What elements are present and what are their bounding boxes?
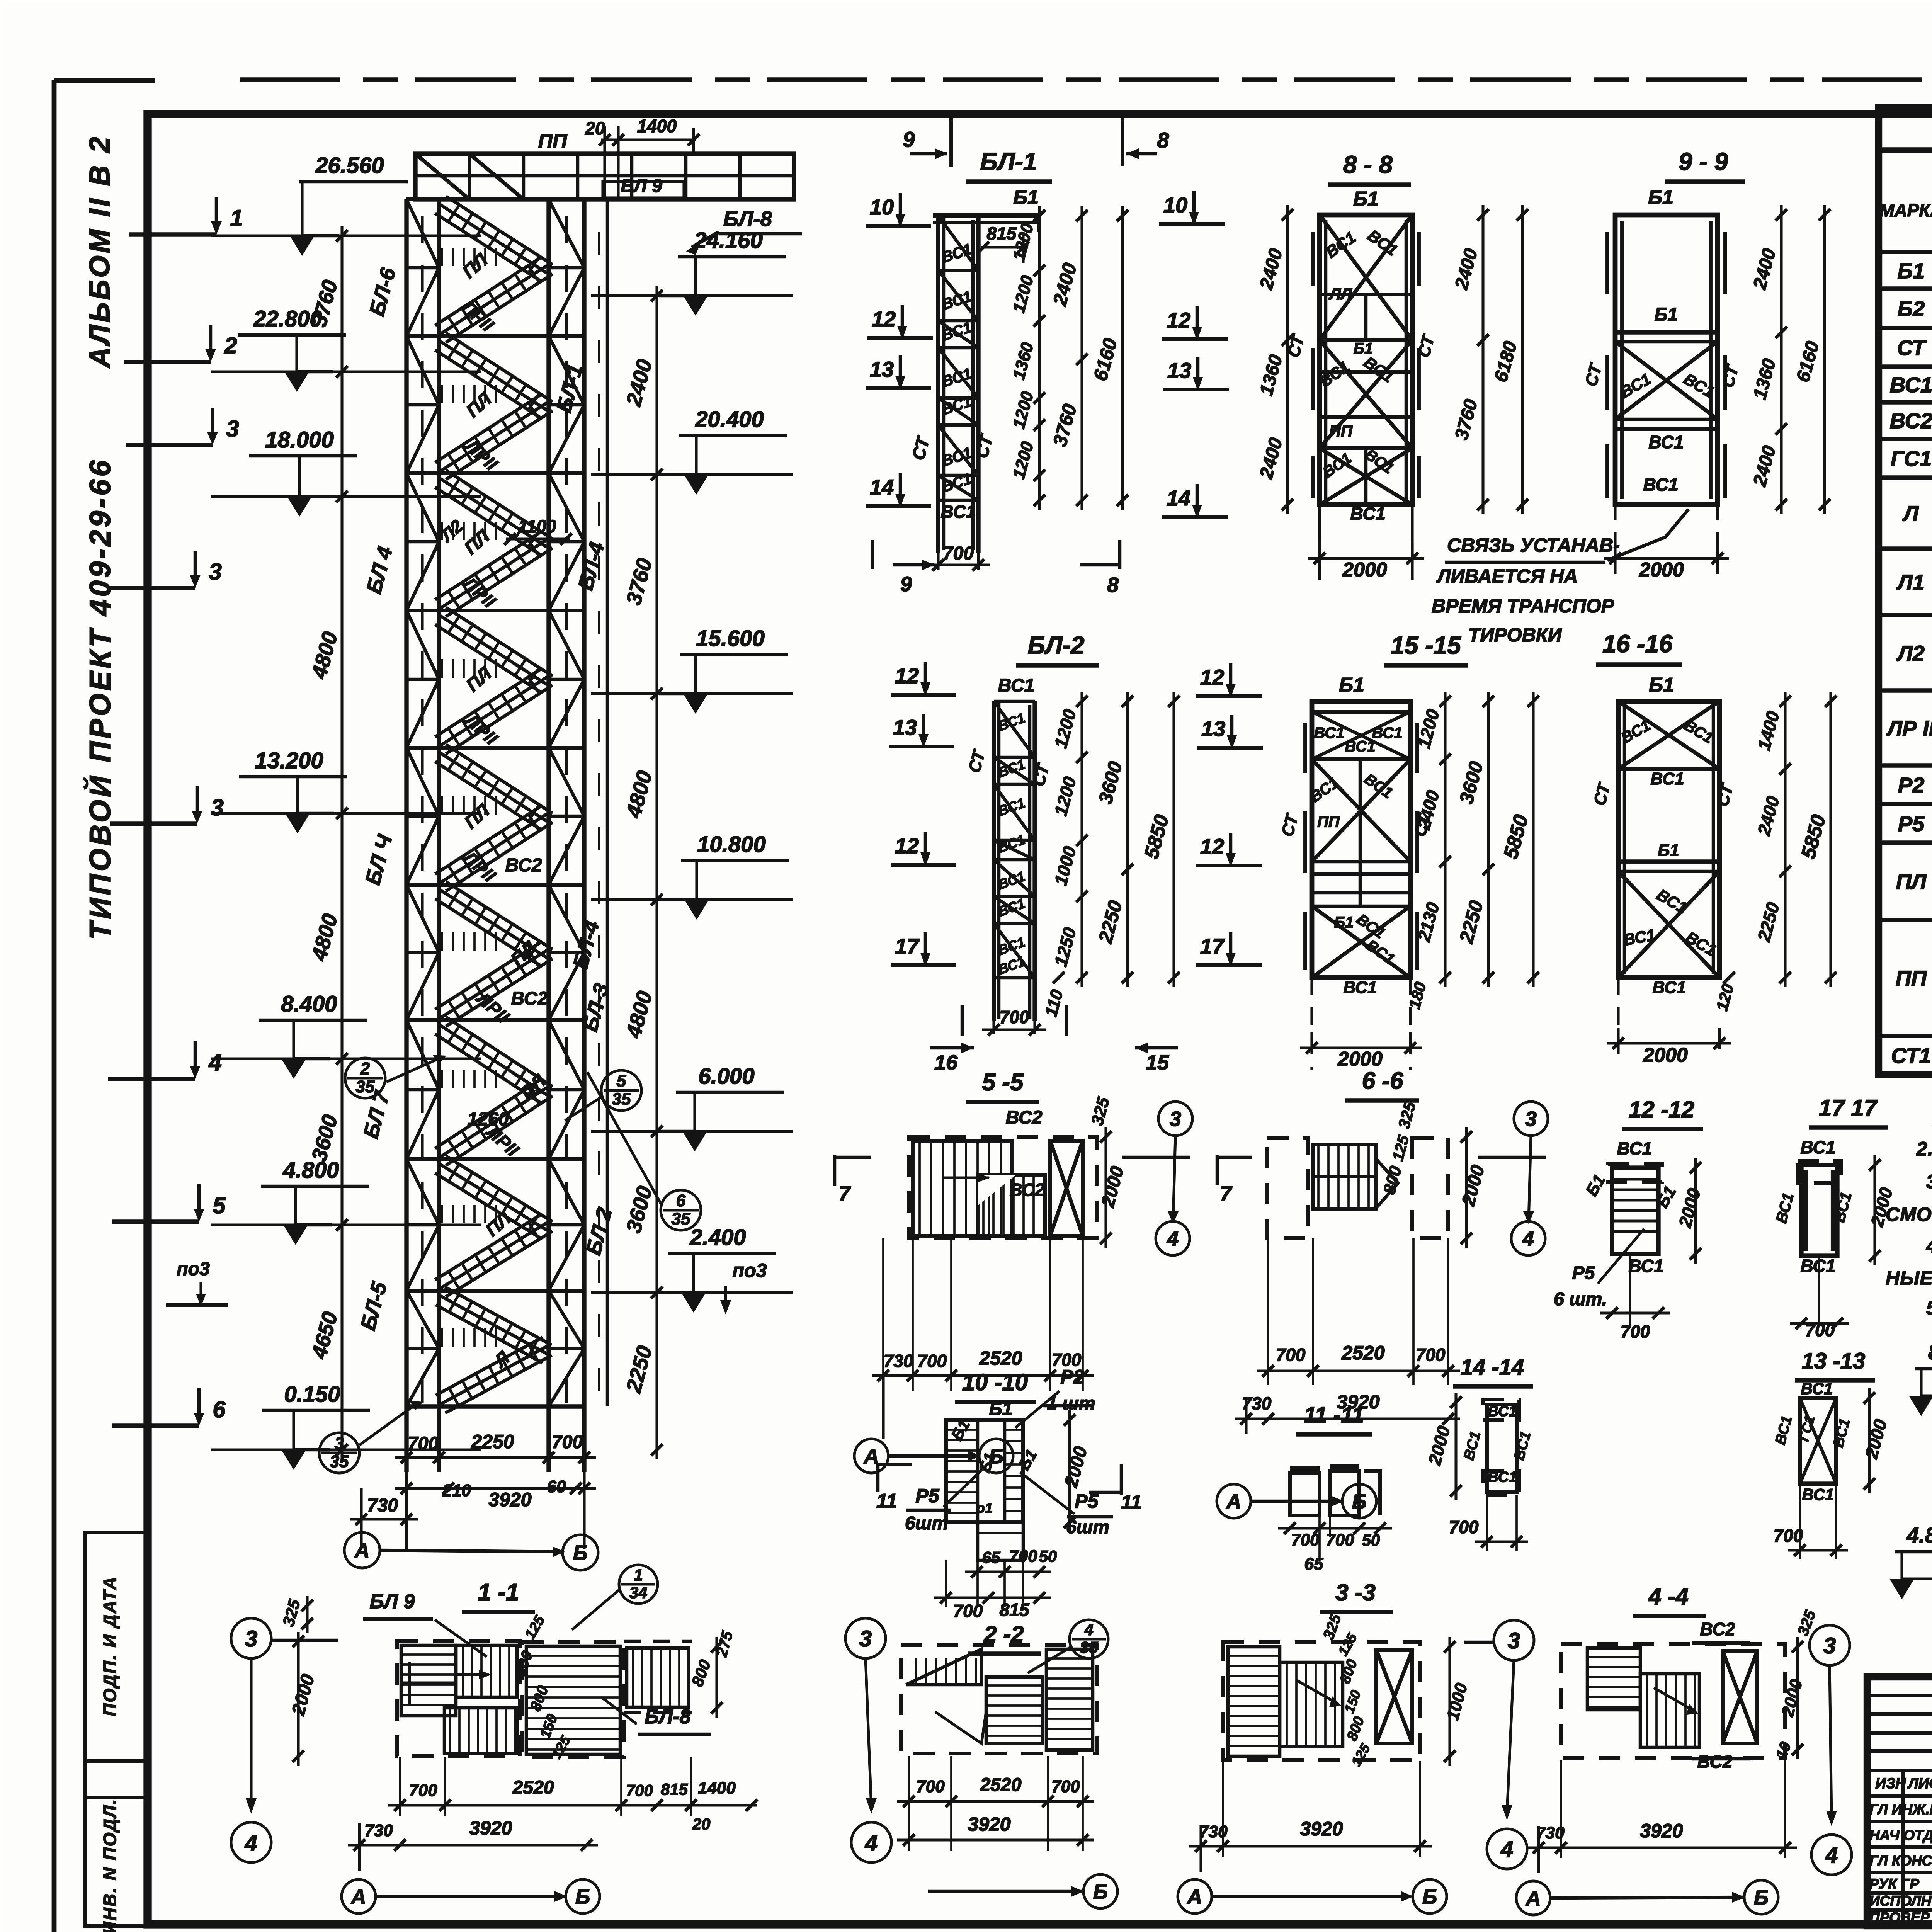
svg-text:Б1: Б1 (1658, 841, 1679, 860)
svg-text:15 -15: 15 -15 (1391, 631, 1461, 659)
svg-text:4: 4 (865, 1830, 878, 1855)
svg-text:700: 700 (1416, 1345, 1446, 1365)
svg-text:12: 12 (1167, 308, 1190, 332)
svg-text:700: 700 (626, 1781, 653, 1799)
svg-text:4: 4 (245, 1830, 257, 1855)
svg-text:15.600: 15.600 (696, 626, 764, 651)
svg-text:3: 3 (1525, 1107, 1537, 1131)
svg-text:20.400: 20.400 (695, 407, 764, 432)
svg-text:35: 35 (356, 1077, 375, 1096)
svg-text:ВС1: ВС1 (1653, 978, 1686, 997)
svg-text:700: 700 (917, 1351, 947, 1371)
svg-text:20: 20 (585, 118, 605, 138)
svg-text:ПП: ПП (1329, 422, 1353, 440)
svg-text:ВС1: ВС1 (1801, 1137, 1836, 1157)
svg-text:700: 700 (1000, 1007, 1029, 1027)
svg-text:35: 35 (1080, 1638, 1098, 1656)
svg-text:8.400: 8.400 (1928, 1340, 1932, 1364)
svg-text:35: 35 (672, 1209, 690, 1228)
svg-text:5. ВСЕ БОЛТЫ М12 КЛАСС 5,8: 5. ВСЕ БОЛТЫ М12 КЛАСС 5,8, КРОМЕ ОГОВОР… (1926, 1297, 1932, 1319)
svg-text:ВС2: ВС2 (505, 855, 542, 876)
svg-text:ЛЛ: ЛЛ (1328, 285, 1352, 303)
svg-text:815: 815 (661, 1780, 688, 1798)
svg-text:17 17: 17 17 (1819, 1095, 1878, 1121)
svg-text:2520: 2520 (980, 1775, 1022, 1795)
svg-text:730: 730 (884, 1351, 913, 1371)
svg-text:ВС2: ВС2 (1890, 408, 1932, 433)
svg-text:по3: по3 (733, 1260, 767, 1281)
svg-text:4: 4 (208, 1049, 221, 1075)
svg-text:ИНВ. N ПОДЛ.: ИНВ. N ПОДЛ. (100, 1798, 120, 1932)
svg-text:3920: 3920 (968, 1813, 1010, 1835)
svg-text:ВС1: ВС1 (1372, 724, 1402, 742)
svg-text:Р5: Р5 (915, 1485, 939, 1507)
svg-text:Л1: Л1 (1896, 570, 1925, 594)
svg-text:СТ1: СТ1 (1891, 1043, 1931, 1068)
svg-text:1 -1: 1 -1 (478, 1579, 519, 1606)
svg-text:13 -13: 13 -13 (1802, 1349, 1865, 1374)
svg-text:РУК ГР: РУК ГР (1869, 1876, 1919, 1892)
svg-text:ЛИСТ: ЛИСТ (1907, 1776, 1932, 1792)
svg-text:ВС2: ВС2 (1697, 1752, 1733, 1772)
svg-text:ЛР II: ЛР II (1886, 716, 1932, 740)
svg-text:16: 16 (934, 1051, 958, 1074)
svg-text:Б: Б (1754, 1886, 1769, 1909)
svg-text:13: 13 (893, 715, 917, 740)
svg-text:13.200: 13.200 (255, 748, 323, 773)
svg-text:Б1: Б1 (1354, 340, 1373, 357)
svg-text:4: 4 (1522, 1227, 1534, 1250)
svg-text:20: 20 (692, 1815, 711, 1833)
svg-text:А: А (1187, 1885, 1202, 1908)
svg-text:Б: Б (575, 1885, 590, 1908)
svg-text:ВС1: ВС1 (1802, 1485, 1834, 1503)
svg-text:12: 12 (1200, 665, 1224, 689)
svg-text:1100: 1100 (518, 516, 556, 536)
svg-text:ВС1: ВС1 (1649, 432, 1684, 452)
svg-text:2000: 2000 (1342, 559, 1387, 581)
svg-text:Р2: Р2 (1898, 773, 1925, 797)
svg-text:ВС1: ВС1 (1629, 1256, 1664, 1276)
svg-text:11 -11: 11 -11 (1304, 1403, 1364, 1428)
svg-text:6: 6 (676, 1191, 686, 1210)
svg-text:13: 13 (870, 357, 894, 381)
svg-text:8: 8 (1157, 128, 1169, 152)
svg-text:9: 9 (900, 573, 912, 596)
svg-text:Р5: Р5 (1898, 811, 1925, 836)
svg-text:700: 700 (943, 543, 974, 564)
svg-text:8 - 8: 8 - 8 (1343, 151, 1393, 179)
svg-text:ПП: ПП (1896, 966, 1927, 990)
svg-text:3: 3 (859, 1626, 872, 1651)
svg-text:4 -4: 4 -4 (1648, 1583, 1688, 1609)
svg-text:4.800: 4.800 (1906, 1523, 1932, 1547)
svg-text:17: 17 (1200, 934, 1225, 958)
svg-text:700: 700 (408, 1434, 439, 1454)
svg-text:Б1: Б1 (1334, 914, 1354, 931)
svg-text:А: А (354, 1539, 370, 1562)
svg-text:БЛ-2: БЛ-2 (1028, 631, 1085, 659)
svg-text:13: 13 (1167, 358, 1191, 383)
svg-text:3920: 3920 (1300, 1818, 1343, 1840)
svg-text:ВС1: ВС1 (998, 675, 1035, 696)
svg-text:815: 815 (987, 223, 1017, 243)
svg-text:2000: 2000 (1639, 559, 1684, 581)
svg-text:по3: по3 (177, 1259, 210, 1279)
svg-text:Б1: Б1 (1013, 186, 1039, 209)
svg-text:ВС1: ВС1 (1344, 978, 1377, 997)
svg-text:А: А (1525, 1887, 1541, 1910)
svg-text:МАРКА: МАРКА (1879, 200, 1932, 220)
svg-text:2: 2 (224, 333, 237, 359)
svg-text:А: А (1226, 1490, 1242, 1513)
svg-text:3: 3 (245, 1626, 257, 1651)
svg-text:3: 3 (209, 559, 221, 585)
svg-text:ВС2: ВС2 (511, 988, 548, 1009)
svg-text:НАЧ ОТД: НАЧ ОТД (1869, 1827, 1932, 1843)
svg-text:730: 730 (367, 1495, 398, 1516)
svg-text:2520: 2520 (1341, 1342, 1384, 1364)
svg-text:ВС1: ВС1 (1617, 1138, 1652, 1158)
svg-text:9: 9 (903, 127, 915, 151)
svg-text:10.800: 10.800 (697, 832, 765, 857)
svg-text:50: 50 (1039, 1547, 1057, 1565)
svg-text:17: 17 (895, 934, 920, 958)
svg-text:3: 3 (211, 794, 223, 820)
svg-text:10 -10: 10 -10 (962, 1369, 1028, 1395)
svg-text:4: 4 (1500, 1837, 1513, 1862)
svg-text:Б1: Б1 (989, 1399, 1013, 1419)
svg-text:Б1: Б1 (1648, 186, 1673, 209)
svg-text:6.000: 6.000 (698, 1064, 754, 1089)
svg-text:6 -6: 6 -6 (1362, 1068, 1403, 1094)
svg-text:ВС1: ВС1 (1488, 1403, 1517, 1420)
svg-text:БЛ-8: БЛ-8 (645, 1706, 690, 1728)
svg-text:ВС1: ВС1 (1314, 724, 1344, 742)
svg-text:ВС2: ВС2 (1700, 1619, 1735, 1639)
svg-text:15: 15 (1146, 1051, 1169, 1074)
svg-text:730: 730 (364, 1821, 393, 1840)
svg-text:14: 14 (1167, 486, 1190, 510)
svg-text:24.160: 24.160 (694, 228, 762, 253)
svg-text:ГЛ ИНЖ.ПР: ГЛ ИНЖ.ПР (1869, 1801, 1932, 1817)
svg-text:13: 13 (1201, 716, 1225, 741)
svg-text:35: 35 (612, 1090, 631, 1109)
svg-text:4: 4 (1084, 1621, 1093, 1639)
svg-text:Р2: Р2 (1060, 1366, 1084, 1388)
svg-text:ВС1: ВС1 (1643, 474, 1679, 495)
svg-text:11: 11 (1121, 1491, 1142, 1514)
svg-text:БЛ 9: БЛ 9 (621, 176, 662, 196)
svg-text:ПП: ПП (538, 130, 568, 153)
svg-text:210: 210 (442, 1481, 471, 1500)
svg-text:ЛИВАЕТСЯ НА: ЛИВАЕТСЯ НА (1436, 565, 1578, 587)
svg-text:3: 3 (1823, 1633, 1836, 1658)
svg-text:ИСПОЛН: ИСПОЛН (1869, 1893, 1932, 1909)
svg-text:Б: Б (1093, 1880, 1108, 1903)
svg-text:2000: 2000 (1337, 1048, 1383, 1070)
svg-text:8: 8 (1107, 573, 1119, 597)
svg-text:НЫЕ СВАРНЫЕ ШВЫ ПРИНИМАТ: НЫЕ СВАРНЫЕ ШВЫ ПРИНИМАТЬ ПО ТАБЛИЦЕ 48 … (1886, 1267, 1932, 1289)
svg-text:СВЯЗЬ УСТАНАВ-: СВЯЗЬ УСТАНАВ- (1447, 534, 1620, 556)
svg-text:7: 7 (838, 1182, 851, 1206)
svg-text:1: 1 (230, 205, 243, 231)
svg-text:Л: Л (1902, 501, 1919, 526)
svg-text:2: 2 (360, 1059, 370, 1078)
svg-text:35: 35 (330, 1452, 349, 1471)
svg-text:5 -5: 5 -5 (982, 1069, 1024, 1096)
svg-text:ВС1: ВС1 (1350, 503, 1386, 524)
svg-text:ВРЕМЯ ТРАНСПОР: ВРЕМЯ ТРАНСПОР (1432, 595, 1614, 617)
svg-text:Б: Б (1422, 1885, 1437, 1908)
svg-text:ВС2: ВС2 (1006, 1107, 1043, 1128)
svg-text:5: 5 (213, 1192, 226, 1218)
svg-text:Л2: Л2 (1896, 641, 1925, 665)
svg-text:3: 3 (335, 1434, 344, 1453)
svg-text:3920: 3920 (469, 1817, 512, 1839)
svg-text:1260: 1260 (468, 1109, 509, 1129)
svg-text:700: 700 (916, 1777, 945, 1796)
svg-text:2250: 2250 (471, 1431, 514, 1452)
svg-text:60: 60 (547, 1477, 566, 1496)
svg-text:2520: 2520 (512, 1777, 554, 1798)
svg-text:ПОДП. И ДАТА: ПОДП. И ДАТА (100, 1576, 120, 1716)
svg-text:700: 700 (552, 1432, 583, 1452)
svg-text:3920: 3920 (488, 1489, 531, 1510)
svg-text:ПРОВЕР: ПРОВЕР (1869, 1910, 1930, 1925)
svg-text:ТИПОВОЙ ПРОЕКТ 409-29-66: ТИПОВОЙ ПРОЕКТ 409-29-66 (83, 457, 117, 940)
svg-text:ТИРОВКИ: ТИРОВКИ (1468, 624, 1562, 646)
svg-text:14: 14 (870, 475, 894, 499)
svg-text:12 -12: 12 -12 (1629, 1097, 1694, 1122)
svg-text:10: 10 (1163, 193, 1187, 217)
svg-text:700: 700 (409, 1781, 437, 1800)
svg-text:12: 12 (895, 833, 919, 858)
svg-text:2.ЭЛЕМЕНТЫ С НЕОГОВОРЕННЫМИ: 2.ЭЛЕМЕНТЫ С НЕОГОВОРЕННЫМИ ЖИЛИЯМИ КРЕП… (1916, 1138, 1932, 1160)
svg-text:ВС1: ВС1 (1890, 372, 1932, 397)
svg-text:700: 700 (1051, 1777, 1080, 1796)
svg-text:6: 6 (213, 1396, 226, 1422)
svg-text:700: 700 (1276, 1345, 1306, 1365)
svg-text:ВС1: ВС1 (1345, 738, 1375, 755)
svg-text:ВС2: ВС2 (1010, 1180, 1045, 1200)
svg-text:12: 12 (895, 663, 919, 688)
svg-text:4.800: 4.800 (282, 1158, 339, 1183)
svg-text:2 -2: 2 -2 (983, 1621, 1024, 1647)
svg-text:0.150: 0.150 (284, 1382, 340, 1407)
svg-text:2000: 2000 (1643, 1044, 1688, 1066)
svg-text:ВС1: ВС1 (941, 502, 976, 522)
svg-text:о1: о1 (976, 1500, 993, 1516)
svg-text:16 -16: 16 -16 (1602, 630, 1673, 658)
svg-text:Б1: Б1 (1353, 188, 1379, 210)
svg-text:14 -14: 14 -14 (1461, 1355, 1524, 1380)
svg-text:11: 11 (876, 1490, 897, 1512)
svg-text:8.400: 8.400 (281, 992, 337, 1017)
svg-text:1400: 1400 (637, 116, 677, 136)
svg-text:4: 4 (1167, 1227, 1179, 1250)
svg-text:700: 700 (1621, 1321, 1650, 1342)
svg-text:Б1: Б1 (1649, 674, 1674, 696)
svg-text:ВС1: ВС1 (1801, 1256, 1836, 1276)
svg-text:2.400: 2.400 (689, 1225, 746, 1250)
svg-text:БЛ-8: БЛ-8 (723, 207, 772, 231)
svg-text:18.000: 18.000 (265, 427, 333, 452)
svg-text:5: 5 (617, 1071, 626, 1090)
svg-text:3920: 3920 (1640, 1820, 1683, 1842)
svg-text:65: 65 (982, 1548, 1000, 1566)
svg-text:3. ЛЕСТНИЧНЫЕ БЛОКИ БЛ-3: 3. ЛЕСТНИЧНЫЕ БЛОКИ БЛ-3, БЛ-4 БЛ-5 БЛ-6… (1926, 1171, 1932, 1192)
svg-text:ВС1: ВС1 (1801, 1379, 1833, 1398)
svg-text:34: 34 (629, 1583, 648, 1602)
svg-text:50: 50 (1362, 1531, 1380, 1549)
svg-text:4: 4 (1825, 1843, 1838, 1868)
svg-text:7: 7 (1220, 1182, 1233, 1206)
svg-text:12: 12 (1200, 834, 1224, 859)
svg-text:Б1: Б1 (1655, 304, 1678, 325)
svg-text:700: 700 (1291, 1531, 1320, 1549)
svg-text:26.560: 26.560 (315, 153, 384, 178)
svg-text:6 шт.: 6 шт. (1554, 1289, 1607, 1310)
svg-text:ПЛ: ПЛ (1896, 869, 1927, 894)
svg-text:700: 700 (1449, 1517, 1479, 1537)
svg-text:ГС1: ГС1 (1891, 446, 1932, 471)
svg-text:А: А (350, 1885, 366, 1908)
svg-text:ГЛ КОНСТ: ГЛ КОНСТ (1869, 1853, 1932, 1869)
svg-text:3: 3 (226, 416, 239, 442)
svg-text:БЛ 9: БЛ 9 (370, 1590, 415, 1613)
svg-text:СМОТРЕТЬ НА ЛИСТЕ КМ-: СМОТРЕТЬ НА ЛИСТЕ КМ-34. (1886, 1204, 1932, 1225)
svg-text:ИЗН: ИЗН (1875, 1776, 1906, 1792)
svg-text:Б: Б (573, 1541, 588, 1565)
svg-text:Б1: Б1 (1898, 259, 1925, 283)
svg-text:2520: 2520 (979, 1347, 1022, 1369)
svg-text:Б1: Б1 (1339, 674, 1364, 696)
svg-text:3 -3: 3 -3 (1335, 1580, 1375, 1605)
svg-text:1400: 1400 (698, 1779, 736, 1798)
svg-text:10: 10 (870, 195, 894, 219)
svg-text:9 - 9: 9 - 9 (1679, 148, 1728, 175)
svg-text:ВС1: ВС1 (1651, 769, 1684, 788)
svg-text:6шт: 6шт (905, 1513, 948, 1534)
svg-text:3: 3 (1508, 1628, 1520, 1653)
svg-text:Б2: Б2 (1898, 296, 1925, 321)
svg-text:ПП: ПП (1317, 813, 1340, 830)
svg-text:4. СВАРНЫЕ ШВЫ ПРИНИМАТЬ П: 4. СВАРНЫЕ ШВЫ ПРИНИМАТЬ ПО РАСЧЕТНЫМ УС… (1926, 1235, 1932, 1257)
svg-text:СТ: СТ (1897, 335, 1927, 360)
svg-text:1: 1 (634, 1566, 643, 1584)
svg-text:АЛЬБОМ II В 2: АЛЬБОМ II В 2 (83, 134, 116, 369)
svg-text:Р5: Р5 (1572, 1263, 1595, 1283)
svg-text:12: 12 (872, 307, 896, 331)
svg-text:БЛ-1: БЛ-1 (980, 148, 1037, 175)
svg-text:3: 3 (1170, 1107, 1181, 1131)
